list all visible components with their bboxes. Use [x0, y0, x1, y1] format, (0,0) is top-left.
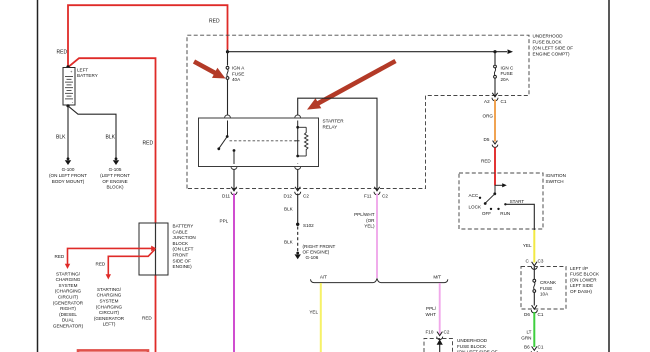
callout arrow 2 (points at starter relay) — [307, 61, 396, 110]
node battery positive junction — [66, 65, 69, 68]
svg-text:G-100: G-100 — [62, 167, 75, 172]
svg-text:CHARGING: CHARGING — [97, 293, 122, 298]
svg-text:LEFT): LEFT) — [103, 322, 116, 327]
svg-text:LT: LT — [526, 330, 531, 335]
arrow bus continuation right — [508, 49, 514, 54]
red box (bottom left, cut off) — [78, 350, 148, 352]
svg-text:ACC: ACC — [469, 193, 479, 198]
svg-text:(ON LEFT SIDE OF: (ON LEFT SIDE OF — [533, 46, 574, 51]
wire relay coil feed from A2/C1 branch — [298, 98, 377, 186]
wire crank fuse output — [533, 293, 535, 306]
ignition switch internals — [479, 183, 507, 210]
svg-text:CABLE: CABLE — [173, 229, 188, 234]
node bus junction at IGN A — [226, 50, 229, 53]
fuse IGN A 40A — [226, 66, 229, 79]
svg-text:C3: C3 — [538, 258, 544, 263]
terminal F10 C2 — [437, 332, 443, 340]
svg-text:D5: D5 — [484, 137, 490, 142]
relay STARTER RELAY box — [199, 118, 319, 167]
svg-text:(GENERATOR: (GENERATOR — [53, 300, 84, 305]
svg-text:FUSE BLOCK: FUSE BLOCK — [533, 40, 563, 45]
svg-text:DUAL: DUAL — [62, 318, 75, 323]
svg-text:G-105: G-105 — [109, 167, 122, 172]
svg-text:D11: D11 — [222, 194, 231, 199]
connector D5 — [492, 141, 498, 148]
wire PPL/WHT (M/T option) — [439, 283, 441, 334]
svg-text:GRN: GRN — [521, 335, 531, 340]
svg-text:JUNCTION: JUNCTION — [173, 235, 196, 240]
svg-text:RIGHT): RIGHT) — [60, 306, 76, 311]
terminal D12 C2 — [295, 186, 301, 195]
svg-text:PPL/WHT: PPL/WHT — [354, 212, 375, 217]
svg-text:GENERATOR): GENERATOR) — [53, 324, 84, 329]
svg-text:(RIGHT FRONT: (RIGHT FRONT — [303, 244, 336, 249]
wire RED battery to battery cable junction block — [69, 58, 156, 223]
ground G-105 — [113, 157, 119, 165]
svg-text:IGN A: IGN A — [232, 66, 245, 71]
svg-text:RED: RED — [57, 49, 68, 55]
svg-text:CRANK: CRANK — [540, 280, 557, 285]
wire RED branch to generator right circuit — [65, 246, 157, 269]
svg-text:BLK: BLK — [284, 207, 294, 212]
terminal D6 C1 — [531, 305, 537, 313]
label STARTING/CHARGING SYSTEM (GENERATOR RIGHT) — [53, 271, 84, 328]
svg-text:C2: C2 — [303, 194, 309, 199]
terminal D11 — [231, 186, 237, 195]
svg-text:C1: C1 — [501, 99, 507, 104]
wire relay output (pin 85) down — [297, 170, 299, 187]
svg-text:IGN C: IGN C — [501, 65, 514, 70]
wire RED junction block down to bottom — [155, 275, 157, 352]
svg-text:IGNITION: IGNITION — [546, 173, 566, 178]
wire RED branch to generator left circuit — [106, 250, 155, 280]
wire BLK to splice S102 — [297, 194, 299, 225]
svg-text:(ON LEFT: (ON LEFT — [173, 247, 194, 252]
svg-text:YEL: YEL — [309, 310, 318, 315]
svg-text:BATTERY: BATTERY — [173, 224, 194, 229]
options brace A/T : M/T — [311, 278, 448, 282]
relay actuator dashed link — [230, 140, 297, 142]
svg-text:OF DASH): OF DASH) — [570, 289, 592, 294]
wire LT GRN — [533, 312, 535, 347]
terminal F11 C2 — [374, 186, 380, 195]
svg-text:ENGINE): ENGINE) — [173, 264, 193, 269]
svg-text:F11: F11 — [364, 194, 372, 199]
wire IGN A fuse input — [227, 50, 229, 66]
wire YEL (A/T option) — [320, 283, 322, 352]
wire IGN C fuse output — [494, 78, 496, 93]
svg-text:OF ENGINE): OF ENGINE) — [303, 250, 330, 255]
svg-text:WHT: WHT — [426, 312, 437, 317]
wire RED to ignition switch — [494, 148, 496, 186]
svg-text:D12: D12 — [284, 194, 293, 199]
svg-text:RED: RED — [142, 315, 152, 320]
terminal C C3 — [531, 262, 537, 270]
svg-text:STARTING/: STARTING/ — [56, 271, 81, 276]
svg-text:RED: RED — [96, 262, 106, 267]
relay coil — [295, 121, 308, 165]
fuse IGN C 20A — [494, 65, 497, 78]
svg-text:FUSE: FUSE — [232, 71, 244, 76]
callout arrow 1 (points at IGN A fuse) — [194, 62, 226, 79]
svg-text:(ON LEFT FRONT: (ON LEFT FRONT — [49, 173, 87, 178]
svg-text:C2: C2 — [382, 194, 388, 199]
svg-text:M/T: M/T — [433, 275, 441, 280]
svg-text:OF ENGINE: OF ENGINE — [102, 179, 127, 184]
wire ORG — [494, 100, 496, 142]
svg-text:SWITCH: SWITCH — [546, 179, 564, 184]
terminal arc relay pin 86 (top right) — [295, 115, 301, 118]
svg-text:ORG: ORG — [483, 113, 494, 118]
battery LEFT BATTERY — [63, 68, 75, 106]
svg-text:UNDERHOOD: UNDERHOOD — [457, 338, 488, 343]
svg-text:STARTING/: STARTING/ — [97, 287, 122, 292]
wire IGN A fuse output to relay — [227, 80, 229, 116]
svg-text:BLK: BLK — [284, 240, 294, 245]
wire relay output (pin 87) down — [233, 170, 235, 187]
wire BLK battery negative to G-105 — [68, 106, 116, 158]
svg-text:(DIESEL: (DIESEL — [59, 312, 77, 317]
svg-text:LEFT I/P: LEFT I/P — [570, 266, 588, 271]
svg-text:40A: 40A — [232, 77, 241, 82]
svg-text:PPL/: PPL/ — [426, 306, 437, 311]
svg-text:START: START — [510, 199, 525, 204]
svg-text:BLK: BLK — [106, 135, 116, 141]
svg-text:BODY MOUNT): BODY MOUNT) — [52, 179, 85, 184]
wire BLK dashed to G-106 — [297, 227, 299, 253]
label STARTING/CHARGING SYSTEM (GENERATOR LEFT) — [94, 287, 125, 327]
svg-text:(GENERATOR: (GENERATOR — [94, 316, 125, 321]
wire crank fuse input — [533, 267, 535, 279]
svg-text:RED: RED — [481, 159, 491, 164]
svg-text:RED: RED — [209, 19, 220, 25]
left I/P fuse block dashed box — [521, 267, 566, 310]
svg-text:CHARGING: CHARGING — [56, 277, 81, 282]
svg-text:LEFT SIDE: LEFT SIDE — [570, 283, 593, 288]
svg-text:UNDERHOOD: UNDERHOOD — [533, 34, 564, 39]
svg-text:FRONT: FRONT — [173, 253, 189, 258]
wire START contact to box exit — [505, 204, 534, 230]
svg-text:LOCK: LOCK — [469, 204, 482, 209]
svg-text:OFF: OFF — [482, 211, 491, 216]
svg-text:FUSE BLOCK: FUSE BLOCK — [457, 344, 487, 349]
svg-text:CIRCUIT): CIRCUIT) — [58, 295, 79, 300]
svg-text:BLOCK: BLOCK — [173, 241, 190, 246]
node bus junction at IGN C — [493, 50, 496, 53]
svg-text:C1: C1 — [538, 344, 544, 349]
svg-text:PPL: PPL — [220, 218, 229, 223]
relay switch contact — [217, 121, 235, 165]
svg-text:20A: 20A — [501, 77, 510, 82]
arrow wire up inside bottom fuse block — [437, 339, 443, 352]
wire feed bus IGN A junction to IGN C junction — [228, 51, 508, 53]
svg-text:10A: 10A — [540, 292, 549, 297]
svg-text:RED: RED — [143, 141, 154, 147]
terminal A2 C1 — [492, 93, 498, 101]
ground G-106 — [295, 252, 301, 260]
svg-text:A/T: A/T — [320, 275, 327, 280]
svg-text:RELAY: RELAY — [323, 124, 338, 129]
svg-text:C1: C1 — [538, 312, 544, 317]
svg-text:F10: F10 — [426, 329, 434, 334]
svg-text:S102: S102 — [303, 223, 314, 228]
svg-text:(OR: (OR — [366, 218, 375, 223]
svg-text:(ON LOWER: (ON LOWER — [570, 277, 597, 282]
wire bus inside junction block — [155, 223, 157, 275]
svg-text:(LEFT FRONT: (LEFT FRONT — [100, 173, 130, 178]
svg-text:FUSE: FUSE — [540, 286, 552, 291]
svg-text:B6: B6 — [524, 344, 530, 349]
terminal arc relay pin 30 (top left) — [225, 115, 231, 118]
svg-text:BLOCK): BLOCK) — [106, 185, 124, 190]
wire BLK battery negative to G-100 — [67, 106, 69, 159]
svg-text:SIDE OF: SIDE OF — [173, 258, 192, 263]
svg-text:(CHARGING: (CHARGING — [55, 289, 82, 294]
svg-text:STARTER: STARTER — [323, 119, 345, 124]
terminal arc relay pin 85 (bottom right) — [295, 167, 301, 170]
wire RED battery positive to IGN A fuse feed (top loop) — [68, 5, 228, 66]
svg-text:RUN: RUN — [500, 211, 510, 216]
page border left — [37, 0, 39, 352]
svg-text:D6: D6 — [524, 312, 530, 317]
ignition switch dashed box — [459, 173, 543, 229]
fuse CRANK FUSE 10A — [533, 279, 536, 292]
wire YEL ignition to crank fuse — [533, 230, 535, 263]
svg-text:FUSE BLOCK: FUSE BLOCK — [570, 272, 600, 277]
splice S102 — [296, 223, 299, 226]
svg-text:FUSE: FUSE — [501, 71, 513, 76]
terminal B6 C1 — [531, 346, 537, 352]
svg-text:SYSTEM: SYSTEM — [100, 299, 119, 304]
svg-text:SYSTEM: SYSTEM — [59, 283, 78, 288]
battery cable junction block box — [139, 223, 168, 275]
wire PPL — [233, 194, 235, 352]
svg-text:YEL: YEL — [523, 243, 532, 248]
node battery negative junction — [66, 104, 69, 107]
underhood fuse block (bottom right) dashed outline — [424, 339, 453, 352]
svg-text:BATTERY: BATTERY — [77, 73, 98, 78]
svg-text:C2: C2 — [444, 329, 450, 334]
terminal arc relay pin 87 (bottom left) — [231, 167, 237, 170]
svg-text:ENGINE COMPT): ENGINE COMPT) — [533, 52, 570, 57]
svg-text:RED: RED — [55, 254, 65, 259]
underhood fuse block dashed outline — [187, 35, 529, 188]
ground G-100 — [65, 157, 71, 165]
svg-text:CIRCUIT): CIRCUIT) — [99, 310, 120, 315]
svg-text:LEFT: LEFT — [77, 68, 88, 73]
wire IGN C fuse input — [494, 52, 496, 65]
page border right — [608, 0, 610, 352]
svg-text:(CHARGING: (CHARGING — [96, 304, 123, 309]
wire PPL/WHT from F11 to options brace — [376, 194, 378, 279]
svg-text:BLK: BLK — [56, 135, 66, 141]
svg-text:G-106: G-106 — [306, 255, 319, 260]
svg-text:A2: A2 — [484, 99, 490, 104]
svg-text:YEL): YEL) — [364, 224, 375, 229]
